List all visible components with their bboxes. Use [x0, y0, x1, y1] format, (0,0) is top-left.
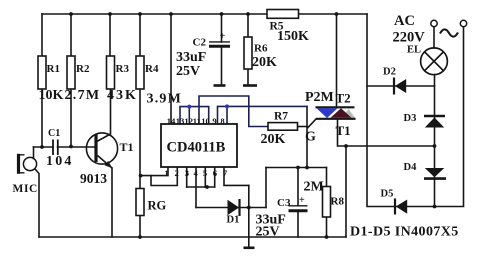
- transistor Q1 9013: [86, 133, 117, 168]
- wire R4 top lead: [139, 14, 141, 56]
- svg-text:10K: 10K: [39, 88, 64, 103]
- svg-text:D5: D5: [381, 189, 394, 200]
- svg-text:12: 12: [184, 116, 193, 126]
- lamp EL: [421, 48, 448, 75]
- junction R2 base wire: [69, 145, 73, 149]
- svg-text:43K: 43K: [107, 88, 138, 103]
- wire D1 horizontal from pin4 column: [196, 207, 266, 209]
- svg-text:R6: R6: [254, 43, 268, 55]
- wire C2 bottom lead: [221, 47, 223, 86]
- svg-text:T1: T1: [336, 123, 351, 138]
- junction blue pin8: [225, 104, 229, 108]
- svg-text:7: 7: [223, 168, 228, 178]
- resistor R3: [107, 56, 115, 89]
- wire pin14 to top rail: [170, 14, 172, 124]
- svg-text:104: 104: [46, 154, 74, 169]
- wire T2 lead from rail to triac: [336, 14, 338, 107]
- diode D5: [395, 199, 407, 215]
- svg-text:R1: R1: [47, 63, 60, 75]
- svg-text:14: 14: [167, 116, 176, 126]
- svg-text:20K: 20K: [261, 132, 286, 147]
- wire branch from T1 wire down to bottom rail: [345, 146, 347, 237]
- svg-text:AC: AC: [394, 13, 415, 29]
- svg-text:C1: C1: [48, 128, 60, 139]
- svg-text:T2: T2: [336, 91, 351, 106]
- resistor R4: [136, 56, 144, 89]
- svg-text:T1: T1: [120, 140, 134, 154]
- junction pin5 bus: [205, 185, 209, 189]
- pin numbers top 14-8: [167, 116, 226, 126]
- svg-text:13: 13: [176, 116, 185, 126]
- wire pin2 path: [151, 167, 177, 186]
- wire R1 bottom lead: [41, 89, 43, 147]
- svg-text:6: 6: [213, 168, 218, 178]
- svg-text:2M: 2M: [304, 180, 324, 195]
- wire pin7 path down right: [224, 167, 249, 185]
- capacitor C2: [209, 42, 230, 46]
- wire R6 top lead: [247, 14, 249, 37]
- wire R2 bottom lead: [70, 89, 72, 147]
- svg-text:3.9M: 3.9M: [147, 92, 183, 107]
- symbol ~: [440, 29, 458, 36]
- wire pin4 vertical: [195, 167, 197, 208]
- junction top rail pin14: [169, 12, 173, 16]
- triac T1/T2 P2M: [316, 107, 356, 119]
- diode D1: [228, 199, 240, 216]
- junction R1 base wire: [40, 145, 44, 149]
- wire RG bottom lead: [139, 216, 141, 238]
- svg-text:R2: R2: [76, 63, 90, 75]
- svg-text:RG: RG: [148, 199, 167, 213]
- svg-text:C3: C3: [277, 197, 291, 209]
- svg-text:4: 4: [194, 168, 199, 178]
- svg-text:R7: R7: [274, 111, 288, 123]
- wire C1 right plate to T1 base: [58, 146, 95, 148]
- wire blue bus C pins 9-8 to G column: [218, 106, 308, 124]
- wire R8 top lead: [326, 168, 328, 187]
- wire R7 right lead to G column: [298, 126, 308, 128]
- svg-text:R4: R4: [145, 63, 159, 75]
- svg-text:D1: D1: [227, 215, 240, 226]
- wire lamp bottom through D2 node down through D3 D4 to D5 row: [434, 75, 436, 207]
- diode D2: [394, 78, 406, 95]
- resistor R7: [268, 123, 298, 131]
- wire triac gate diagonal: [308, 119, 316, 128]
- junction top rail R2: [69, 12, 73, 16]
- junction R4 RG pin1 node: [139, 174, 143, 178]
- wire pin6 stub: [214, 167, 216, 187]
- wire R4 bottom lead down to RG node: [139, 89, 141, 189]
- capacitor C3: [289, 206, 308, 211]
- resistor R1: [38, 56, 46, 89]
- wire pin12 stub: [188, 107, 190, 124]
- wire R3 top lead: [109, 14, 111, 56]
- svg-text:3: 3: [185, 168, 189, 178]
- svg-text:D3: D3: [404, 113, 417, 124]
- wire pin8 stub: [226, 106, 228, 124]
- junction T1 branch: [344, 144, 348, 148]
- svg-text:8: 8: [220, 116, 225, 126]
- svg-text:10: 10: [201, 116, 210, 126]
- wire pin3 stub: [186, 167, 188, 187]
- wire R3 bottom lead / T1 collector: [98, 89, 111, 141]
- svg-text:R3: R3: [116, 63, 130, 75]
- wire C3 bottom stub: [297, 211, 299, 238]
- wire pin1 stub: [141, 167, 168, 176]
- svg-text:+: +: [220, 31, 226, 42]
- diode D3: [424, 116, 445, 128]
- diode D4: [424, 168, 446, 179]
- op-amp/IC U1 CD4011B box: [161, 124, 237, 167]
- ground under R6: [243, 84, 257, 87]
- svg-text:D4: D4: [404, 162, 418, 173]
- junction C3 stub node: [296, 166, 300, 170]
- wire G node column down to C3 node: [306, 106, 308, 167]
- resistor R6: [244, 37, 252, 69]
- wire AC terminal to lamp top: [433, 27, 435, 48]
- wire blue bus B pins 13-12-10: [180, 107, 209, 124]
- wire C3 top stub: [297, 168, 299, 206]
- resistor R2: [67, 56, 75, 89]
- svg-text:CD4011B: CD4011B: [167, 140, 226, 156]
- svg-text:D2: D2: [383, 67, 396, 78]
- junction G column C3 node: [305, 166, 309, 170]
- svg-text:25V: 25V: [256, 225, 280, 240]
- AC terminal left: [431, 20, 437, 26]
- junction top rail R6: [246, 12, 250, 16]
- svg-text:2.7M: 2.7M: [65, 88, 101, 103]
- wire blue bus A pin11 to R7 left lead: [199, 96, 268, 127]
- ground below bottom rail: [244, 247, 255, 250]
- wire MIC top stub: [33, 147, 35, 159]
- junction top rail R4: [138, 12, 142, 16]
- junction D4 D5: [433, 205, 437, 209]
- wire C3 node horizontal: [266, 167, 327, 169]
- svg-text:25V: 25V: [176, 64, 200, 79]
- svg-text:MIC: MIC: [13, 183, 38, 195]
- svg-text:9: 9: [212, 116, 216, 126]
- resistor R8: [323, 187, 331, 218]
- svg-text:D1-D5 IN4007X5: D1-D5 IN4007X5: [350, 225, 459, 240]
- svg-text:20K: 20K: [252, 55, 277, 70]
- svg-text:33uF: 33uF: [176, 50, 206, 65]
- svg-text:1: 1: [164, 168, 168, 178]
- svg-text:150K: 150K: [277, 29, 309, 44]
- wire bottom rail: [39, 236, 346, 238]
- svg-text:C2: C2: [193, 37, 207, 49]
- svg-text:2: 2: [175, 168, 179, 178]
- wire T1 emitter vertical to bottom rail: [111, 168, 113, 237]
- wire R1 top lead: [41, 14, 43, 56]
- svg-text:R8: R8: [331, 196, 345, 208]
- wire C2 top lead: [221, 14, 223, 42]
- junction RG bottom rail: [138, 235, 142, 239]
- svg-text:5: 5: [203, 168, 207, 178]
- resistor R5: [267, 10, 299, 19]
- svg-text:220V: 220V: [393, 30, 426, 46]
- wire right drop from rail to D5 row and across to right AC column: [367, 14, 464, 207]
- junction top rail C2: [220, 12, 224, 16]
- junction D1 pin7 ground cross: [247, 206, 251, 210]
- wire top rail: [42, 13, 367, 15]
- svg-text:+: +: [299, 195, 305, 206]
- junction D3 D4 mid: [433, 144, 437, 148]
- svg-text:G: G: [305, 130, 316, 145]
- resistor RG: [136, 189, 144, 216]
- wire MIC bottom lead: [35, 169, 39, 237]
- svg-text:9013: 9013: [80, 171, 107, 186]
- wire pins 3-5-6 bus: [187, 186, 215, 188]
- wire MIC to C1 left plate: [34, 146, 54, 148]
- wire R6 bottom lead: [247, 69, 249, 85]
- wire D2 horizontal: [367, 85, 435, 87]
- svg-text:11: 11: [193, 116, 201, 126]
- wire pin7 column through D1 wire and rail to ground: [248, 185, 250, 247]
- pin numbers bottom 1-7: [164, 168, 228, 178]
- wire pin5 stub: [204, 167, 206, 187]
- svg-text:P2M: P2M: [305, 90, 334, 105]
- junction top rail R3: [108, 12, 112, 16]
- ground under C2: [214, 84, 226, 87]
- junction blue pin12: [187, 105, 191, 109]
- wire R8 bottom lead: [326, 217, 328, 237]
- junction R8 bottom rail: [325, 235, 329, 239]
- capacitor C1: [53, 140, 58, 156]
- wire R2 top lead: [70, 14, 72, 56]
- microphone MIC: [19, 154, 37, 174]
- junction top rail T2: [335, 12, 339, 16]
- svg-text:EL: EL: [407, 45, 421, 56]
- AC terminal right: [460, 20, 466, 26]
- wire triac T1 lead down and across to D3-D4 junction: [338, 119, 435, 146]
- wire C3 node corner down to D1 wire: [265, 168, 267, 208]
